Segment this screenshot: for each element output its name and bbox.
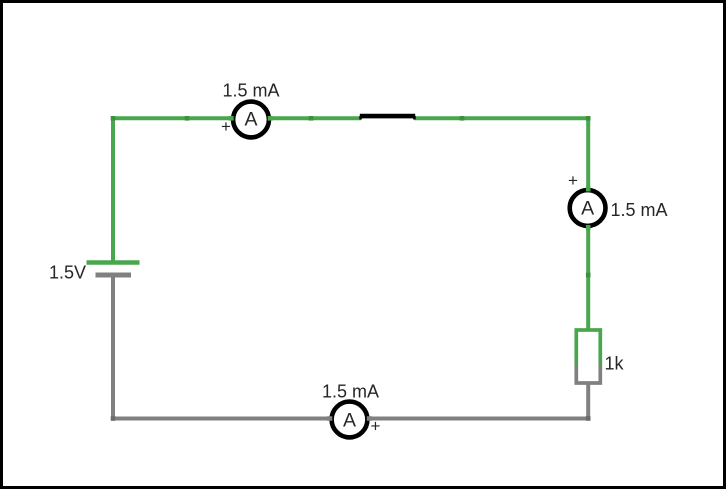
ammeter M2 circle [570,190,606,226]
ammeter M1 post right [268,116,273,121]
node dot corner top-right [586,116,591,121]
battery V1 positive plate [87,260,140,265]
node dot corner top-left [111,116,116,121]
switch SW1 closed [360,114,415,119]
wire left vertical green [111,116,115,262]
resistor R1 body [576,330,600,383]
svg-text:1.5V: 1.5V [49,263,86,283]
node dot top 1 [185,116,190,121]
switch right end post [413,116,416,119]
node dot top 2 [309,116,314,121]
ammeter M3 post right [367,416,372,421]
battery V1 negative plate [96,273,132,278]
switch left end post [359,116,362,119]
wire right vertical green [586,116,590,336]
ammeter M3 post left [327,416,332,421]
wire bottom horizontal gray [113,417,590,421]
ammeter M2 post bottom [586,225,591,230]
node dot corner bottom-left [111,416,116,421]
svg-text:1.5 mA: 1.5 mA [322,382,379,402]
wire right vertical gray [586,381,590,421]
svg-text:A: A [244,109,257,131]
node dot corner bottom-right [586,416,591,421]
svg-text:1k: 1k [605,354,625,374]
ammeter M1 post left [229,116,234,121]
node dot right mid [586,273,591,278]
svg-text:A: A [581,197,594,219]
ammeter M2 post top [586,187,591,192]
wire top left segment [113,116,361,120]
svg-text:1.5 mA: 1.5 mA [222,81,279,101]
svg-text:+: + [568,171,578,190]
node dot top 3 [460,116,465,121]
svg-text:+: + [371,417,381,436]
ammeter M3 circle [332,402,368,438]
ammeter M1 circle [233,102,269,138]
wire left vertical gray [111,275,115,421]
svg-text:1.5 mA: 1.5 mA [611,200,668,220]
svg-text:A: A [343,410,356,432]
wire top right segment [414,116,590,120]
